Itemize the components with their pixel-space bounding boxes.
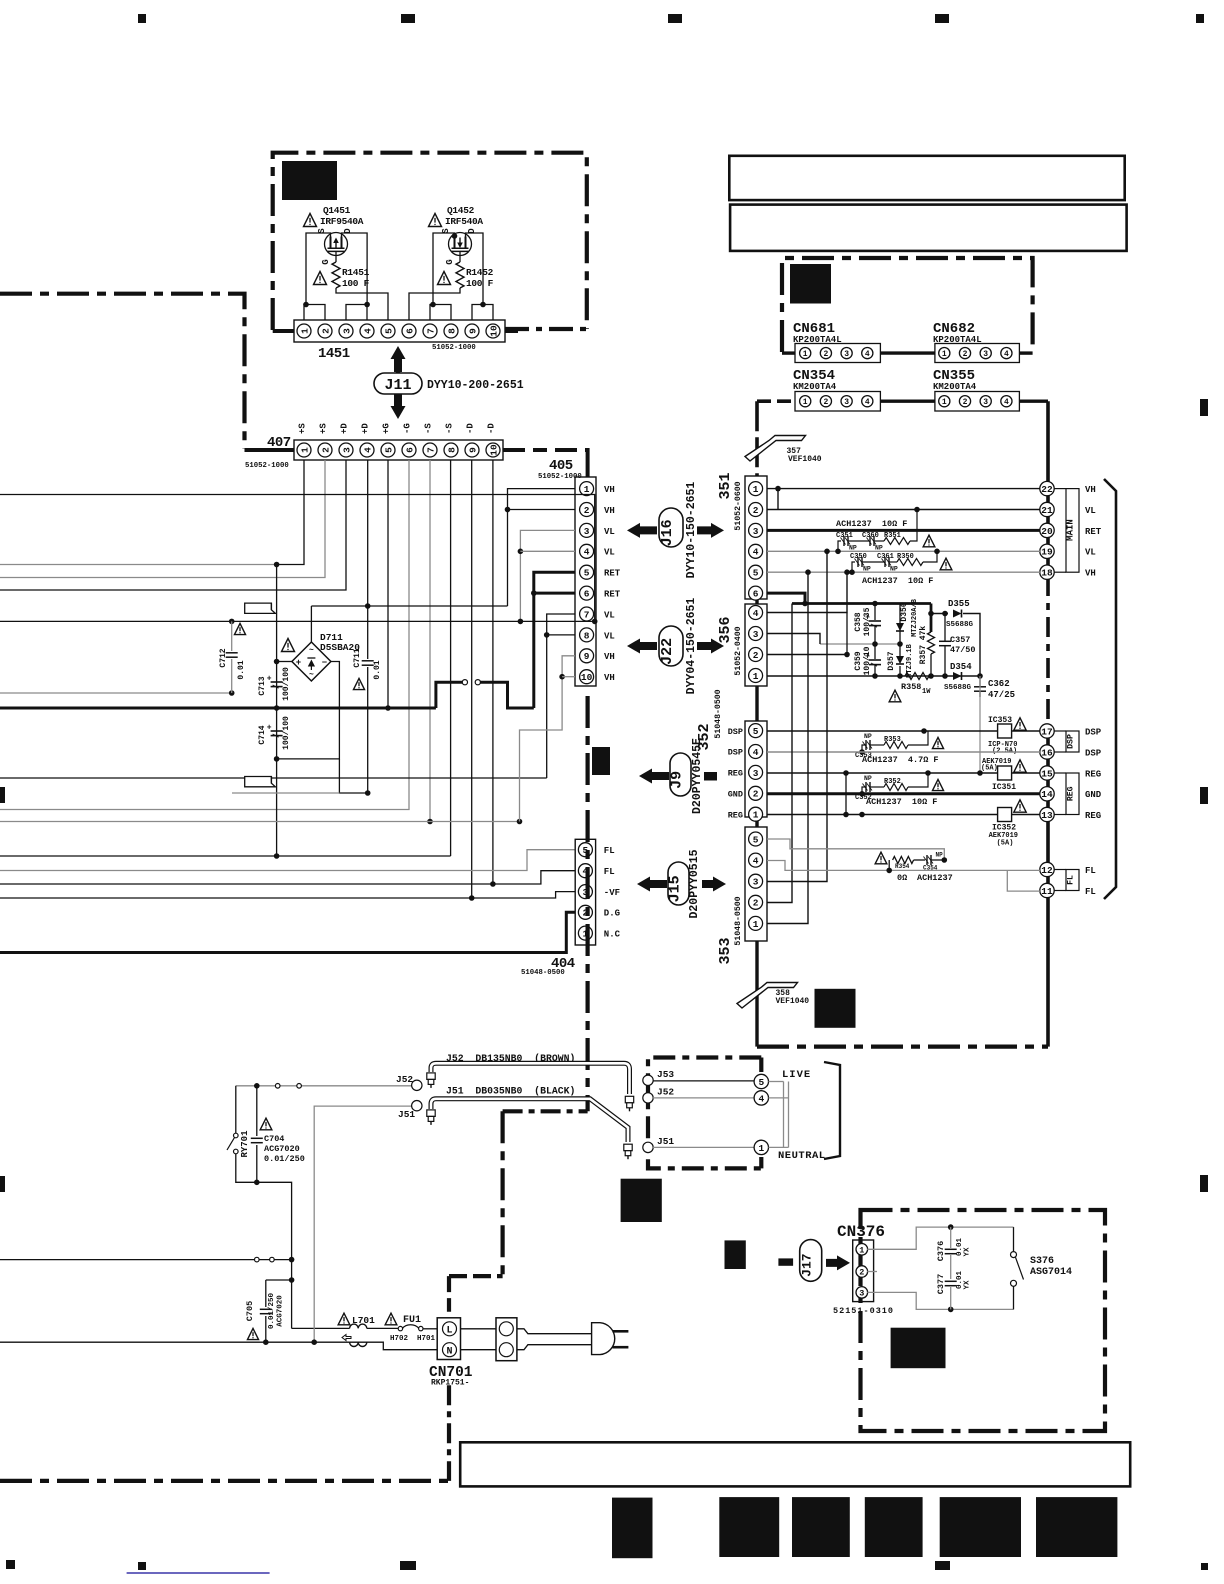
svg-text:G: G [321, 259, 331, 264]
svg-text:C711: C711 [353, 648, 362, 667]
connector 407 pin 3 [339, 443, 353, 457]
connector CN376 pin 1 [856, 1244, 868, 1256]
wire gate Q1452 [459, 256, 461, 263]
svg-text:+: + [267, 675, 272, 684]
redaction bar 2 [719, 1497, 779, 1557]
wire IC351 out [1012, 772, 1040, 774]
svg-text:8: 8 [584, 630, 590, 641]
wire C361-R350 [889, 561, 897, 563]
connector 405 pin 9 [580, 649, 594, 663]
svg-text:14: 14 [1041, 789, 1053, 800]
wire RET bump [436, 682, 462, 708]
connector CN701 pin N [443, 1343, 457, 1358]
connector J22 label box [659, 626, 683, 666]
connector J17 label box [800, 1240, 822, 1282]
svg-text:REG: REG [728, 810, 743, 820]
diode D354 [953, 672, 962, 680]
contact circle b2 [270, 1257, 275, 1262]
wire 1451 left lead [273, 329, 294, 333]
svg-text:D356: D356 [900, 602, 909, 621]
node C357 top [942, 611, 948, 617]
wire CN376 p3 [867, 1292, 1013, 1309]
node pin 14 right column [1040, 787, 1054, 801]
svg-text:NP: NP [864, 733, 872, 740]
zener D356 [896, 623, 904, 631]
svg-text:C376: C376 [936, 1241, 946, 1261]
row787 C352 [863, 782, 873, 792]
svg-text:VEF1040: VEF1040 [776, 997, 810, 1006]
svg-text:47/50: 47/50 [950, 645, 976, 655]
svg-text:5: 5 [753, 726, 759, 737]
registration mark [1196, 14, 1204, 23]
svg-text:KM200TA4: KM200TA4 [793, 382, 837, 392]
wire 351p5 to pin18 [767, 571, 1040, 573]
svg-text:(5A): (5A) [997, 840, 1014, 848]
wire L link [461, 1328, 497, 1330]
wire upper to L701 [292, 1327, 350, 1329]
svg-text:2: 2 [753, 898, 759, 909]
connector 407 pin 10 [486, 443, 500, 457]
connector CN355 pin 3 [980, 396, 991, 407]
svg-text:FU1: FU1 [403, 1315, 421, 1326]
node 352p1 a [859, 812, 865, 818]
svg-text:21: 21 [1041, 505, 1053, 516]
capacitor C713 [267, 675, 283, 689]
svg-text:1: 1 [299, 447, 310, 453]
wire L821 [0, 821, 520, 823]
svg-text:ACH1237 10Ω F: ACH1237 10Ω F [862, 576, 933, 586]
svg-text:ASG7014: ASG7014 [1030, 1267, 1072, 1278]
registration mark [6, 1560, 15, 1569]
connector 351 pin 5 [749, 565, 763, 579]
svg-text:J17: J17 [800, 1253, 815, 1276]
svg-text:J51 DB035NB0 (BLACK): J51 DB035NB0 (BLACK) [446, 1086, 575, 1097]
svg-text:0.01/250: 0.01/250 [264, 1154, 305, 1164]
switch S376 [1013, 1227, 1015, 1251]
svg-text:3: 3 [844, 350, 849, 359]
wire L494 [0, 495, 595, 622]
svg-text:5: 5 [584, 568, 590, 579]
capacitor C705 [265, 1280, 267, 1307]
connector 407 pin 8 [444, 443, 458, 457]
svg-text:IC353: IC353 [988, 716, 1012, 725]
node R351 top [914, 507, 920, 513]
svg-text:51048-0500: 51048-0500 [714, 689, 723, 738]
border right block right dashdot [1046, 576, 1050, 726]
connector J15 arrow right [702, 877, 726, 892]
wire R357 v [930, 614, 933, 633]
border central v1 [585, 696, 589, 1111]
svg-text:352: 352 [696, 723, 713, 750]
border central jog1 [503, 1109, 588, 1113]
wire 353p3 long [767, 551, 827, 881]
warning triangle C712 [234, 623, 245, 634]
svg-text:0.01/250: 0.01/250 [268, 1293, 276, 1330]
wire row745 [862, 745, 866, 752]
registration mark [1200, 787, 1208, 804]
node D711 left [274, 659, 280, 665]
connector 352 pin 3 [749, 765, 763, 779]
connector 352 pin 1 [749, 807, 763, 821]
connector 405 pin 2 [580, 503, 594, 517]
capacitor C359 [865, 653, 881, 667]
connector 356 body [745, 604, 767, 686]
connector J22 arrow right [697, 639, 724, 654]
connector 405 pin 7 [580, 607, 594, 621]
group box FL [1066, 870, 1079, 891]
svg-text:VEF1040: VEF1040 [788, 455, 822, 464]
svg-text:C362: C362 [988, 679, 1010, 689]
wire 356p2 [767, 654, 847, 656]
svg-text:5: 5 [753, 568, 759, 579]
svg-text:2: 2 [859, 1268, 864, 1278]
node Q1452 S [452, 233, 458, 239]
connector J17 dash [778, 1258, 793, 1265]
node row562 left [849, 569, 855, 575]
group box stub FL2 [1054, 890, 1066, 892]
wire D Q1452 [466, 233, 484, 305]
registration mark [935, 1561, 950, 1570]
svg-text:IRF540A: IRF540A [445, 216, 483, 227]
connector 351 body [745, 476, 767, 599]
wire RET rise [534, 572, 575, 708]
capacitor C362 [979, 676, 981, 686]
svg-text:C361: C361 [877, 553, 894, 561]
connector 351 pin 3 [749, 523, 763, 537]
svg-text:1: 1 [803, 398, 808, 407]
node d355 left [928, 611, 934, 617]
svg-text:17: 17 [1041, 726, 1053, 737]
svg-text:DSP: DSP [1067, 734, 1076, 749]
cable J51 black [431, 1099, 628, 1142]
connector 405 pin 5 [580, 565, 594, 579]
svg-text:6: 6 [404, 447, 415, 453]
wire D711 right path [277, 662, 340, 759]
connector J11 shaft [396, 368, 401, 398]
resistor R358 [905, 673, 929, 680]
svg-text:407: 407 [267, 435, 291, 451]
wire 352p3 to IC351 [767, 772, 997, 774]
node RET left [274, 705, 280, 711]
wire L778 [0, 777, 547, 779]
IC352 body [998, 808, 1012, 822]
redaction box below J53 [621, 1179, 662, 1222]
diode D355 [953, 610, 962, 618]
svg-text:2: 2 [753, 505, 759, 516]
svg-text:100 F: 100 F [466, 278, 494, 289]
connector 356 pin 3 [749, 627, 763, 641]
wire S Q1452 [433, 233, 455, 305]
group box stub REG1 [1054, 772, 1066, 774]
wire 407p4 drop [367, 460, 369, 606]
redaction box CN681 [790, 264, 831, 304]
connector CN682 body [935, 344, 1020, 363]
wire L701 to FU1 [367, 1327, 399, 1329]
connector 356 pin 2 [749, 648, 763, 662]
svg-text:4: 4 [362, 447, 373, 453]
dash-dot border J53 right b [759, 1157, 763, 1168]
svg-text:C705: C705 [245, 1301, 255, 1321]
svg-text:9: 9 [467, 328, 478, 334]
wire row745 right [908, 731, 928, 745]
connector 404 pin 3 [578, 885, 592, 899]
svg-text:51052-1000: 51052-1000 [245, 462, 289, 470]
svg-text:4: 4 [753, 547, 759, 558]
connector 405 pin 4 [580, 544, 594, 558]
svg-text:VH: VH [604, 652, 615, 662]
wire rail corner [930, 604, 933, 614]
connector 404 pin 1 [578, 926, 592, 940]
node 407p7 [427, 819, 433, 825]
registration mark [401, 14, 415, 23]
plug J51 left [427, 1110, 435, 1125]
svg-text:2: 2 [584, 505, 590, 516]
capacitor C357 [939, 641, 951, 645]
svg-text:R352: R352 [884, 778, 901, 786]
svg-text:-D: -D [466, 423, 476, 434]
svg-text:1: 1 [753, 671, 759, 682]
capacitor C358 [865, 614, 881, 628]
svg-text:+: + [296, 658, 301, 668]
capacitor C354 [924, 855, 934, 865]
fuse FU1 [398, 1326, 402, 1330]
node 407p5 RET [385, 705, 391, 711]
border link 351-356 [755, 599, 758, 604]
svg-text:VH: VH [604, 673, 615, 683]
border below 353 [755, 941, 758, 1047]
wire 407 to 405 dashed [503, 448, 588, 452]
node row787 left [859, 791, 865, 797]
wire R1451 to pin5 [336, 288, 388, 320]
svg-text:D354: D354 [950, 662, 972, 672]
node 352p3 a [843, 770, 849, 776]
svg-text:1: 1 [753, 919, 759, 930]
wire L1344 [0, 1341, 350, 1343]
svg-text:VL: VL [604, 548, 615, 558]
connector 407 pin 5 [381, 443, 395, 457]
wire cord bottom [517, 1345, 592, 1350]
connector 1451 pin 9 [465, 324, 479, 338]
warning triangle R1452 [438, 272, 451, 285]
svg-text:REG: REG [1067, 786, 1076, 801]
border link 352-353 [755, 817, 758, 827]
connector CN682 pin 2 [959, 348, 970, 359]
connector CN354 body [795, 392, 880, 412]
wire to 405p10 [562, 676, 575, 678]
svg-text:H702: H702 [390, 1335, 409, 1343]
svg-text:YX: YX [964, 1280, 972, 1290]
wire bypass left [888, 860, 890, 870]
wire 405 top lead [586, 448, 590, 477]
wire 407p9 drop [471, 460, 473, 898]
node pin 12 right column [1040, 862, 1054, 876]
svg-text:405: 405 [549, 458, 573, 474]
wire pins7-8 tie [430, 305, 451, 321]
svg-text:-S: -S [445, 423, 455, 434]
wire 352p2 GND to pin14 [767, 792, 1040, 795]
node pin 15 right column [1040, 766, 1054, 780]
wire VH to 405p1 [508, 489, 576, 606]
connector 1451 pin 6 [402, 324, 416, 338]
svg-text:R358: R358 [901, 682, 921, 692]
wire top ac [236, 1085, 412, 1087]
wire 352p4 to pin16 [767, 751, 1040, 753]
capacitor C376 [950, 1227, 952, 1248]
wire VH910 rise [520, 656, 576, 822]
contact circle ac2 [297, 1084, 302, 1089]
svg-text:REG: REG [728, 769, 743, 779]
terminal J51 left [412, 1101, 422, 1111]
svg-text:+G: +G [382, 423, 392, 434]
resistor R354 [893, 857, 914, 864]
capacitor C377 [945, 1281, 957, 1285]
node pin 21 right column [1040, 502, 1054, 516]
svg-text:J52: J52 [657, 1087, 674, 1098]
wire L621 [0, 620, 595, 622]
border right block right solid bottom [1046, 726, 1050, 1047]
svg-text:C351: C351 [836, 532, 853, 540]
wire CN682 right [1019, 351, 1032, 354]
svg-text:ACH1237 10Ω F: ACH1237 10Ω F [836, 519, 907, 529]
capacitor C360 [867, 536, 877, 546]
svg-text:D20PYY0515: D20PYY0515 [688, 849, 701, 918]
connector CN681 pin 4 [862, 348, 873, 359]
wire L606 [311, 605, 507, 607]
redaction bar 3 [792, 1497, 850, 1557]
wire L952 DG [0, 912, 575, 952]
svg-text:4: 4 [753, 856, 759, 867]
wire 351p2 to pin21 [767, 509, 1040, 511]
svg-text:10: 10 [488, 444, 499, 456]
svg-text:2: 2 [823, 350, 828, 359]
wire 351p6 thick [767, 593, 805, 603]
svg-text:NP: NP [864, 775, 872, 782]
connector J17 arrow right [826, 1255, 850, 1270]
registration mark [1200, 1175, 1208, 1192]
rail mid 356 block [820, 643, 900, 645]
rail top 356 block [792, 602, 931, 605]
wire 352p5 to IC353 [767, 730, 997, 732]
wire x847 tie [846, 613, 848, 655]
connector 407 pin 9 [465, 443, 479, 457]
svg-text:1: 1 [758, 1143, 764, 1154]
connector CN354 pin 1 [800, 396, 811, 407]
relay RY701 [235, 1086, 237, 1133]
warning triangle R354 [875, 852, 887, 864]
wire L1259 [0, 1259, 292, 1261]
wire 407p5 drop [387, 460, 389, 708]
capacitor C714 [267, 724, 283, 738]
node RET p6 [531, 590, 537, 596]
group box stub REG2 [1054, 814, 1066, 816]
connector J16 label box [659, 508, 683, 547]
wire 356p3 [767, 634, 820, 645]
svg-text:10: 10 [581, 672, 593, 683]
wire bypass right [931, 859, 944, 861]
connector 405 pin 8 [580, 628, 594, 642]
svg-text:12: 12 [1041, 865, 1053, 876]
svg-text:MTZJ20A/B: MTZJ20A/B [911, 598, 919, 637]
svg-text:VH: VH [1085, 569, 1096, 579]
border right block right solid top [1046, 401, 1050, 576]
node ac2 [254, 1180, 260, 1186]
wire CN681-CN682 [880, 351, 935, 354]
svg-text:VL: VL [604, 527, 615, 537]
svg-text:5: 5 [383, 328, 394, 334]
node 353p3 tie [824, 549, 830, 555]
svg-text:RET: RET [604, 569, 621, 579]
connector CN376 pin 2 [856, 1266, 868, 1278]
wire 351p4 to pin19 [767, 550, 1040, 552]
connector 404 body [575, 839, 595, 945]
group box stub MAIN [1054, 488, 1066, 490]
svg-text:NP: NP [849, 545, 857, 552]
wire pins1-2 tie [304, 305, 325, 321]
connector 407 pin 1 [297, 443, 311, 457]
wire VL to 405p3 [520, 530, 575, 621]
registration mark [1201, 1563, 1208, 1570]
svg-text:VL: VL [1085, 548, 1096, 558]
svg-text:VL: VL [1085, 506, 1096, 516]
resistor R353 [884, 742, 908, 749]
connector 352 body [745, 721, 767, 817]
wire D357 v [899, 644, 901, 656]
connector J16 arrow left [627, 523, 657, 538]
capacitor C350 [855, 557, 865, 567]
wire S Q1451 [306, 233, 331, 305]
svg-text:353: 353 [717, 937, 734, 964]
registration mark [138, 1562, 146, 1570]
node reg tie b [843, 812, 849, 818]
warning triangle C711 [353, 678, 364, 689]
svg-text:ACG7020: ACG7020 [277, 1295, 285, 1327]
connector CN682 pin 1 [939, 348, 950, 359]
receptacle hole 2 [499, 1343, 513, 1357]
redaction bar 1 [612, 1498, 653, 1559]
connector CN682 pin 3 [980, 348, 991, 359]
connector 404 pin 5 [578, 843, 592, 857]
svg-text:-D: -D [487, 423, 497, 434]
svg-text:−: − [322, 658, 327, 668]
registration mark [1200, 399, 1208, 416]
wire D711 left stub [277, 661, 292, 663]
svg-text:GND: GND [728, 790, 743, 800]
svg-text:VL: VL [604, 610, 615, 620]
node L494 [592, 619, 598, 625]
connector CN701 body [437, 1318, 460, 1360]
svg-text:VH: VH [1085, 485, 1096, 495]
border link 356-352 [755, 686, 758, 721]
svg-text:356: 356 [717, 616, 734, 643]
wire N jog [350, 1342, 438, 1350]
svg-text:-VF: -VF [604, 888, 620, 898]
wire C358 up [874, 604, 876, 621]
redaction bar 5 [940, 1497, 1021, 1557]
svg-text:+: + [267, 724, 272, 733]
node mid-C358 [872, 641, 878, 647]
connector J15 label box [667, 862, 690, 905]
resistor R357 [928, 632, 935, 654]
svg-text:3: 3 [859, 1288, 864, 1298]
connector J9 arrow left [639, 769, 669, 784]
svg-text:8: 8 [446, 447, 457, 453]
node rail-C358 [872, 601, 878, 607]
wire cord top [517, 1329, 592, 1334]
wire D Q1451 [342, 233, 368, 305]
svg-text:5: 5 [758, 1077, 764, 1088]
border central v3 [447, 1276, 451, 1312]
dash-dot border CN376 box [861, 1210, 1106, 1431]
